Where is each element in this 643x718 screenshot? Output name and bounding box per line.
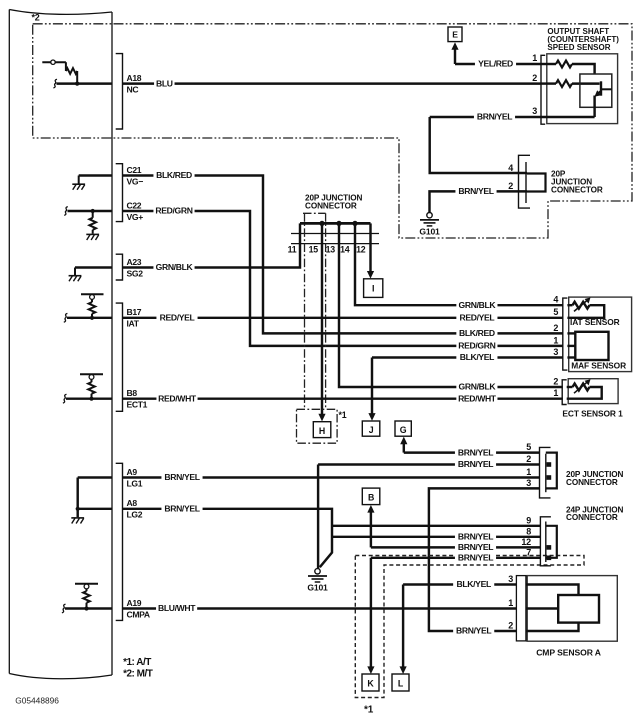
- svg-text:SG2: SG2: [127, 268, 144, 278]
- svg-text:GRN/BLK: GRN/BLK: [156, 262, 194, 272]
- svg-text:2: 2: [508, 621, 513, 631]
- svg-text:5: 5: [553, 307, 558, 317]
- svg-text:BRN/YEL: BRN/YEL: [477, 112, 512, 122]
- svg-text:12: 12: [356, 244, 366, 254]
- svg-text:CMPA: CMPA: [127, 609, 150, 619]
- svg-text:2: 2: [532, 73, 537, 83]
- svg-text:BRN/YEL: BRN/YEL: [164, 472, 199, 482]
- svg-text:14: 14: [340, 244, 350, 254]
- svg-text:SPEED SENSOR: SPEED SENSOR: [547, 43, 610, 52]
- svg-text:LG1: LG1: [127, 478, 143, 488]
- svg-text:BRN/YEL: BRN/YEL: [456, 626, 491, 636]
- svg-text:BLK/RED: BLK/RED: [156, 170, 192, 180]
- svg-text:3: 3: [526, 478, 531, 488]
- svg-text:K: K: [367, 679, 374, 689]
- svg-text:4: 4: [508, 163, 513, 173]
- svg-text:1: 1: [532, 53, 537, 63]
- svg-text:CONNECTOR: CONNECTOR: [566, 478, 618, 487]
- svg-text:BRN/YEL: BRN/YEL: [458, 186, 493, 196]
- svg-text:ECT1: ECT1: [127, 400, 148, 410]
- svg-text:H: H: [319, 426, 325, 436]
- svg-text:GRN/BLK: GRN/BLK: [459, 382, 497, 392]
- svg-text:2: 2: [526, 454, 531, 464]
- svg-text:C21: C21: [127, 165, 142, 175]
- svg-text:1: 1: [526, 467, 531, 477]
- svg-text:RED/YEL: RED/YEL: [160, 313, 195, 323]
- svg-text:BLK/RED: BLK/RED: [459, 328, 495, 338]
- svg-text:1: 1: [508, 598, 513, 608]
- svg-text:B8: B8: [127, 388, 138, 398]
- svg-text:NC: NC: [127, 84, 139, 94]
- svg-text:BRN/YEL: BRN/YEL: [458, 459, 493, 469]
- svg-text:RED/GRN: RED/GRN: [155, 206, 192, 216]
- svg-text:RED/YEL: RED/YEL: [460, 313, 495, 323]
- svg-text:A18: A18: [127, 73, 142, 83]
- svg-text:BRN/YEL: BRN/YEL: [458, 542, 493, 552]
- svg-text:2: 2: [508, 181, 513, 191]
- svg-text:VG+: VG+: [127, 212, 144, 222]
- svg-text:CONNECTOR: CONNECTOR: [551, 185, 603, 194]
- svg-text:*1: A/T: *1: A/T: [123, 657, 151, 668]
- svg-text:8: 8: [526, 526, 531, 536]
- svg-text:*2: *2: [32, 13, 40, 23]
- svg-text:BLK/YEL: BLK/YEL: [457, 579, 491, 589]
- svg-text:4: 4: [553, 295, 558, 305]
- svg-text:BRN/YEL: BRN/YEL: [458, 532, 493, 542]
- svg-text:MAF SENSOR: MAF SENSOR: [571, 360, 626, 370]
- svg-text:2: 2: [553, 323, 558, 333]
- svg-text:*1: *1: [339, 410, 347, 420]
- svg-text:13: 13: [326, 244, 336, 254]
- svg-text:IAT: IAT: [127, 319, 140, 329]
- svg-text:G: G: [400, 425, 407, 435]
- svg-text:I: I: [372, 284, 374, 294]
- svg-text:15: 15: [309, 244, 319, 254]
- svg-text:RED/WHT: RED/WHT: [158, 393, 197, 403]
- svg-text:G05448896: G05448896: [15, 696, 59, 706]
- svg-text:BRN/YEL: BRN/YEL: [458, 447, 493, 457]
- svg-text:J: J: [369, 425, 374, 435]
- svg-text:B: B: [368, 493, 374, 503]
- svg-text:A8: A8: [127, 498, 138, 508]
- svg-text:RED/GRN: RED/GRN: [458, 341, 495, 351]
- svg-text:9: 9: [526, 515, 531, 525]
- svg-text:C22: C22: [127, 200, 142, 210]
- svg-text:A9: A9: [127, 467, 138, 477]
- svg-text:BRN/YEL: BRN/YEL: [164, 504, 199, 514]
- svg-text:3: 3: [553, 347, 558, 357]
- svg-text:L: L: [398, 679, 404, 689]
- svg-text:LG2: LG2: [127, 510, 143, 520]
- svg-text:CMP SENSOR A: CMP SENSOR A: [536, 647, 601, 657]
- svg-text:*2: M/T: *2: M/T: [123, 669, 153, 680]
- svg-text:BLK/YEL: BLK/YEL: [460, 352, 494, 362]
- svg-text:A23: A23: [127, 257, 142, 267]
- svg-text:A19: A19: [127, 598, 142, 608]
- svg-text:CONNECTOR: CONNECTOR: [566, 513, 618, 522]
- svg-text:GRN/BLK: GRN/BLK: [459, 300, 497, 310]
- svg-text:B17: B17: [127, 307, 142, 317]
- svg-text:E: E: [452, 29, 458, 39]
- svg-text:ECT SENSOR 1: ECT SENSOR 1: [562, 409, 623, 419]
- svg-text:BLU/WHT: BLU/WHT: [158, 603, 196, 613]
- svg-text:G101: G101: [419, 227, 440, 237]
- svg-text:2: 2: [553, 376, 558, 386]
- svg-text:12: 12: [521, 537, 531, 547]
- svg-text:G101: G101: [307, 583, 328, 593]
- svg-text:YEL/RED: YEL/RED: [478, 59, 513, 69]
- svg-text:BLU: BLU: [156, 78, 173, 88]
- svg-text:5: 5: [526, 442, 531, 452]
- svg-text:3: 3: [532, 106, 537, 116]
- svg-text:VG−: VG−: [127, 176, 144, 186]
- svg-text:11: 11: [288, 244, 297, 254]
- svg-text:RED/WHT: RED/WHT: [458, 393, 497, 403]
- svg-text:1: 1: [553, 388, 558, 398]
- svg-text:7: 7: [526, 547, 531, 557]
- svg-text:BRN/YEL: BRN/YEL: [458, 553, 493, 563]
- svg-text:3: 3: [508, 574, 513, 584]
- svg-text:1: 1: [553, 335, 558, 345]
- svg-text:*1: *1: [364, 705, 374, 716]
- svg-text:CONNECTOR: CONNECTOR: [305, 202, 357, 211]
